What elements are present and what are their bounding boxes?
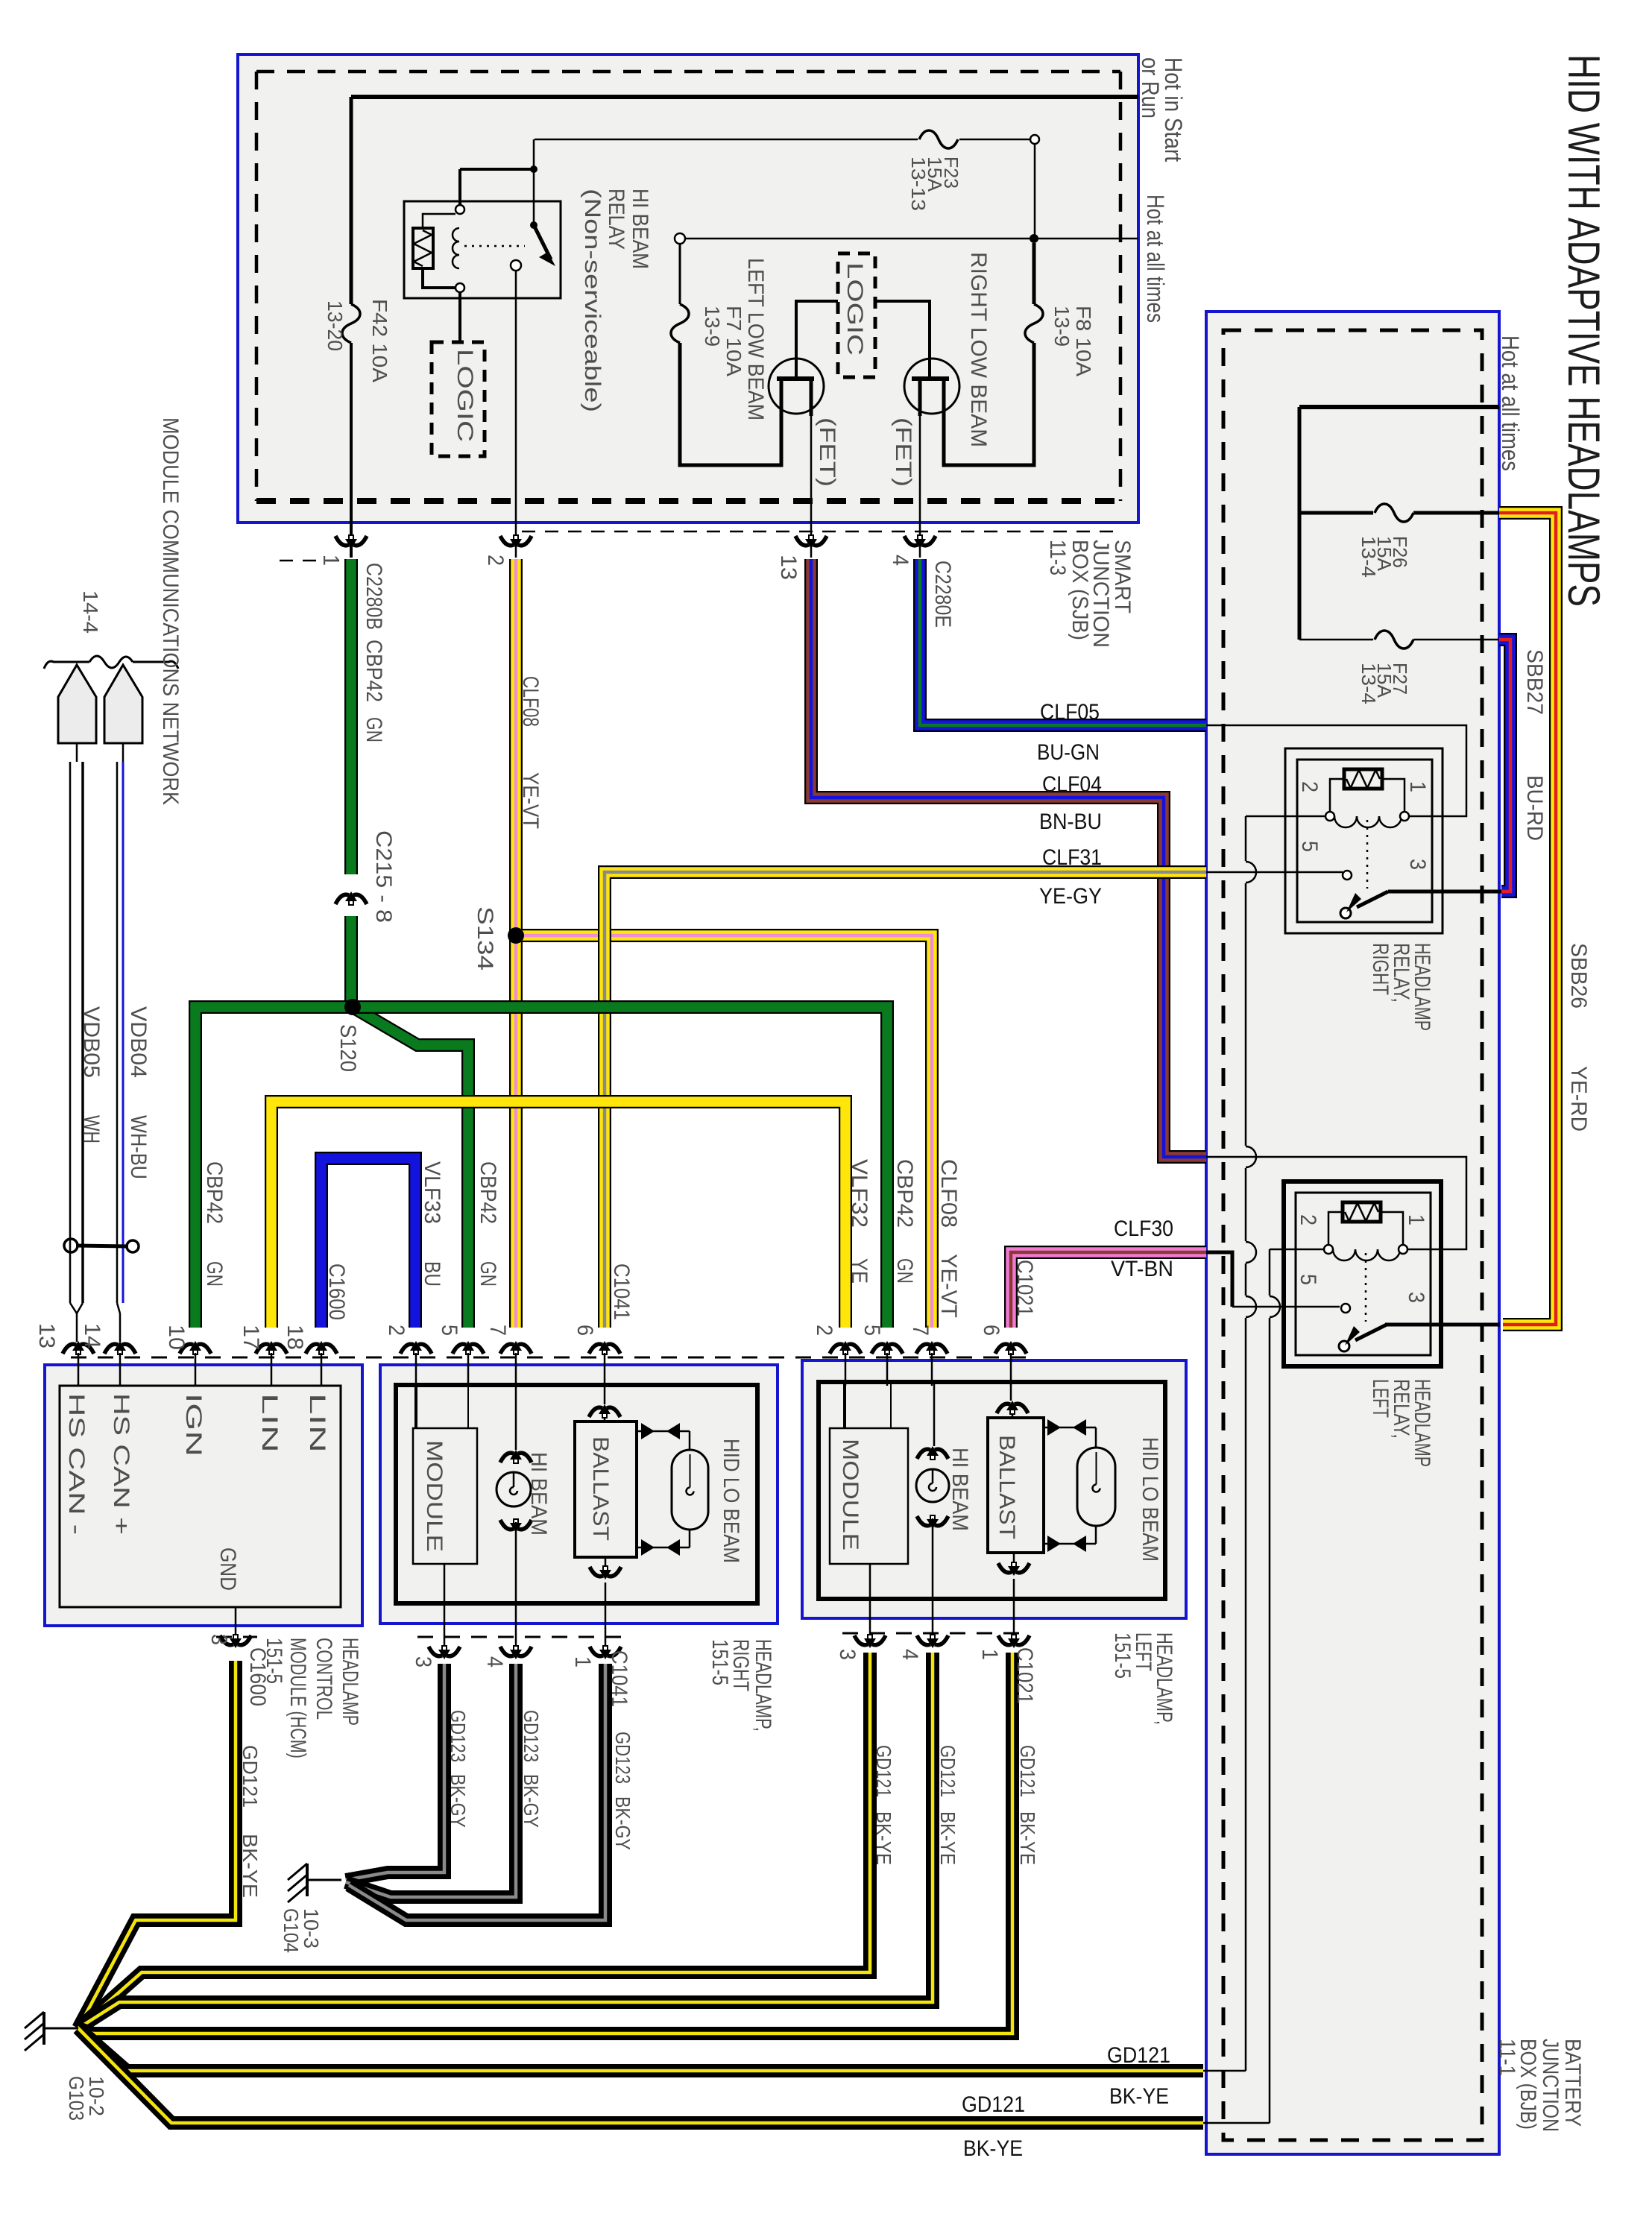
svg-text:Hot at all times: Hot at all times <box>1497 335 1524 471</box>
svg-text:CLF31: CLF31 <box>1042 845 1102 870</box>
svg-text:3: 3 <box>835 1649 860 1660</box>
svg-text:BALLAST: BALLAST <box>994 1435 1019 1539</box>
svg-text:3: 3 <box>411 1656 435 1667</box>
svg-text:BK-YE: BK-YE <box>936 1811 959 1865</box>
svg-text:(Non-serviceable): (Non-serviceable) <box>580 189 605 412</box>
svg-text:C2280B: C2280B <box>362 563 386 630</box>
svg-text:13-4: 13-4 <box>1358 663 1380 704</box>
svg-text:S120: S120 <box>335 1024 360 1072</box>
svg-text:6: 6 <box>573 1325 597 1336</box>
svg-text:BK-GY: BK-GY <box>447 1774 470 1828</box>
svg-text:WH: WH <box>79 1115 104 1143</box>
svg-text:C1041: C1041 <box>607 1650 631 1707</box>
svg-text:5: 5 <box>860 1325 884 1336</box>
svg-text:BK-YE: BK-YE <box>963 2136 1023 2161</box>
svg-text:F7 10A: F7 10A <box>722 306 745 376</box>
svg-text:G104: G104 <box>280 1908 303 1953</box>
svg-text:2: 2 <box>1297 781 1322 792</box>
svg-text:13-9: 13-9 <box>1050 306 1074 347</box>
svg-text:1: 1 <box>1405 781 1430 792</box>
svg-text:VLF32: VLF32 <box>847 1159 871 1228</box>
svg-text:2: 2 <box>812 1325 836 1336</box>
svg-text:HID WITH ADAPTIVE HEADLAMPS: HID WITH ADAPTIVE HEADLAMPS <box>1559 54 1609 607</box>
svg-text:GD121: GD121 <box>936 1745 959 1797</box>
svg-text:CLF04: CLF04 <box>1042 772 1102 797</box>
svg-text:7: 7 <box>485 1325 510 1336</box>
svg-text:BN-BU: BN-BU <box>1039 810 1102 834</box>
svg-text:LEFT: LEFT <box>1368 1379 1393 1418</box>
svg-text:CBP42: CBP42 <box>202 1161 227 1224</box>
svg-text:13-13: 13-13 <box>907 157 930 211</box>
svg-text:LOGIC: LOGIC <box>453 349 477 442</box>
svg-text:HID LO BEAM: HID LO BEAM <box>1138 1437 1162 1562</box>
svg-text:G103: G103 <box>65 2076 88 2121</box>
svg-text:13-20: 13-20 <box>324 300 347 351</box>
svg-text:WH-BU: WH-BU <box>126 1115 151 1179</box>
svg-text:BK-YE: BK-YE <box>1016 1811 1039 1865</box>
svg-text:RELAY: RELAY <box>604 189 628 250</box>
svg-text:CBP42: CBP42 <box>362 640 386 702</box>
svg-text:C2280E: C2280E <box>930 561 955 628</box>
svg-text:BK-YE: BK-YE <box>872 1811 895 1865</box>
svg-text:BK-GY: BK-GY <box>520 1774 543 1828</box>
svg-text:GD121: GD121 <box>962 2092 1025 2117</box>
svg-text:RIGHT: RIGHT <box>1368 943 1393 995</box>
svg-text:LEFT LOW BEAM: LEFT LOW BEAM <box>743 258 768 420</box>
svg-text:GD121: GD121 <box>1107 2043 1170 2068</box>
svg-text:BOX (SJB): BOX (SJB) <box>1068 540 1092 640</box>
svg-text:BATTERY: BATTERY <box>1560 2039 1585 2127</box>
svg-text:151-5: 151-5 <box>707 1639 732 1685</box>
svg-text:18: 18 <box>283 1325 307 1350</box>
svg-text:5: 5 <box>437 1325 461 1336</box>
svg-text:MODULE (HCM): MODULE (HCM) <box>286 1638 310 1758</box>
svg-text:GND: GND <box>215 1547 240 1591</box>
svg-text:CLF08: CLF08 <box>518 676 543 727</box>
svg-text:YE: YE <box>847 1258 871 1284</box>
svg-text:HEADLAMP: HEADLAMP <box>338 1638 362 1726</box>
svg-text:151-5: 151-5 <box>1110 1632 1135 1679</box>
svg-text:C1600: C1600 <box>324 1263 349 1320</box>
svg-text:IGN: IGN <box>181 1393 206 1457</box>
svg-text:HS CAN -: HS CAN - <box>64 1393 89 1535</box>
svg-text:11-3: 11-3 <box>1045 540 1070 575</box>
svg-text:BU-RD: BU-RD <box>1522 775 1547 841</box>
svg-text:(FET): (FET) <box>891 417 915 487</box>
svg-text:SBB27: SBB27 <box>1522 649 1547 715</box>
svg-text:S134: S134 <box>473 906 497 971</box>
svg-text:F42 10A: F42 10A <box>368 299 391 382</box>
svg-text:CLF05: CLF05 <box>1040 700 1100 725</box>
svg-text:10-3: 10-3 <box>300 1908 323 1949</box>
svg-text:GD121: GD121 <box>872 1745 895 1797</box>
svg-text:CLF30: CLF30 <box>1114 1217 1173 1241</box>
svg-text:HID LO BEAM: HID LO BEAM <box>719 1439 743 1563</box>
svg-text:4: 4 <box>888 555 912 566</box>
svg-text:CBP42: CBP42 <box>892 1159 917 1228</box>
svg-text:13: 13 <box>34 1323 59 1348</box>
svg-text:14-4: 14-4 <box>79 590 102 634</box>
svg-text:RIGHT LOW BEAM: RIGHT LOW BEAM <box>966 252 991 447</box>
svg-text:CLF08: CLF08 <box>936 1159 961 1228</box>
svg-text:7: 7 <box>908 1325 933 1336</box>
svg-text:5: 5 <box>1296 1274 1320 1285</box>
svg-text:GN: GN <box>892 1258 917 1284</box>
svg-text:YE-VT: YE-VT <box>518 772 543 829</box>
svg-text:3: 3 <box>1404 1292 1428 1303</box>
svg-text:10-2: 10-2 <box>85 2076 108 2116</box>
svg-text:C1021: C1021 <box>1012 1260 1037 1316</box>
svg-text:14: 14 <box>80 1323 104 1348</box>
svg-text:SBB26: SBB26 <box>1566 943 1591 1009</box>
svg-text:HI BEAM: HI BEAM <box>948 1448 972 1531</box>
svg-text:VT-BN: VT-BN <box>1111 1257 1173 1281</box>
svg-text:2: 2 <box>483 555 508 566</box>
svg-text:GD121: GD121 <box>1016 1745 1039 1797</box>
svg-text:GD121: GD121 <box>239 1745 262 1808</box>
svg-text:LOGIC: LOGIC <box>842 262 867 356</box>
svg-text:6: 6 <box>979 1325 1003 1336</box>
svg-text:VDB05: VDB05 <box>79 1006 104 1078</box>
svg-text:BALLAST: BALLAST <box>588 1436 613 1541</box>
svg-text:BK-GY: BK-GY <box>611 1796 634 1850</box>
svg-text:HI BEAM: HI BEAM <box>628 189 652 269</box>
svg-text:2: 2 <box>1296 1214 1320 1225</box>
svg-text:LIN: LIN <box>257 1393 282 1453</box>
svg-text:1: 1 <box>1404 1214 1428 1225</box>
svg-text:HI BEAM: HI BEAM <box>526 1452 551 1536</box>
svg-text:13-4: 13-4 <box>1358 536 1380 578</box>
svg-text:F8 10A: F8 10A <box>1072 306 1095 376</box>
svg-text:5: 5 <box>1297 841 1322 852</box>
svg-text:1: 1 <box>570 1656 595 1667</box>
svg-text:HS CAN +: HS CAN + <box>109 1393 133 1535</box>
svg-text:2: 2 <box>384 1325 409 1336</box>
svg-text:(FET): (FET) <box>815 417 839 487</box>
svg-text:GD123: GD123 <box>520 1710 543 1762</box>
svg-text:VLF33: VLF33 <box>420 1161 444 1224</box>
svg-text:BK-YE: BK-YE <box>239 1834 262 1898</box>
svg-text:GN: GN <box>362 717 386 742</box>
svg-text:11-1: 11-1 <box>1495 2039 1519 2076</box>
svg-text:BK-YE: BK-YE <box>1109 2084 1169 2109</box>
svg-text:YE-VT: YE-VT <box>936 1254 961 1318</box>
svg-text:13-9: 13-9 <box>701 306 724 347</box>
svg-text:YE-GY: YE-GY <box>1039 884 1102 909</box>
svg-text:CBP42: CBP42 <box>476 1161 500 1224</box>
svg-text:CONTROL: CONTROL <box>312 1638 336 1720</box>
svg-text:or Run: or Run <box>1137 57 1164 119</box>
svg-text:GD123: GD123 <box>611 1732 634 1784</box>
svg-text:13: 13 <box>776 555 801 580</box>
svg-text:4: 4 <box>482 1656 507 1667</box>
svg-text:C1021: C1021 <box>1012 1647 1037 1704</box>
svg-text:4: 4 <box>898 1649 922 1660</box>
svg-text:HEADLAMP,: HEADLAMP, <box>751 1639 775 1732</box>
svg-text:BU-GN: BU-GN <box>1037 740 1100 765</box>
svg-text:VDB04: VDB04 <box>126 1006 151 1078</box>
svg-text:3: 3 <box>1405 859 1430 870</box>
svg-text:GN: GN <box>202 1261 227 1287</box>
svg-text:MODULE COMMUNICATIONS NETWORK: MODULE COMMUNICATIONS NETWORK <box>158 417 183 805</box>
svg-text:Hot at all times: Hot at all times <box>1142 195 1169 323</box>
svg-text:1: 1 <box>318 555 343 566</box>
svg-text:151-5: 151-5 <box>262 1638 286 1684</box>
svg-text:1: 1 <box>977 1649 1002 1660</box>
svg-text:JUNCTION: JUNCTION <box>1538 2039 1563 2132</box>
svg-text:GN: GN <box>476 1261 500 1287</box>
svg-text:GD123: GD123 <box>447 1710 470 1762</box>
svg-text:MODULE: MODULE <box>422 1440 447 1552</box>
svg-text:10: 10 <box>164 1325 189 1350</box>
svg-text:LIN: LIN <box>305 1393 330 1453</box>
svg-text:C1041: C1041 <box>609 1263 634 1320</box>
svg-text:BU: BU <box>420 1261 444 1287</box>
svg-text:YE-RD: YE-RD <box>1566 1066 1591 1132</box>
svg-text:17: 17 <box>239 1325 263 1350</box>
svg-text:C215 - 8: C215 - 8 <box>371 830 396 923</box>
svg-text:MODULE: MODULE <box>838 1439 863 1550</box>
svg-text:3: 3 <box>206 1634 231 1645</box>
